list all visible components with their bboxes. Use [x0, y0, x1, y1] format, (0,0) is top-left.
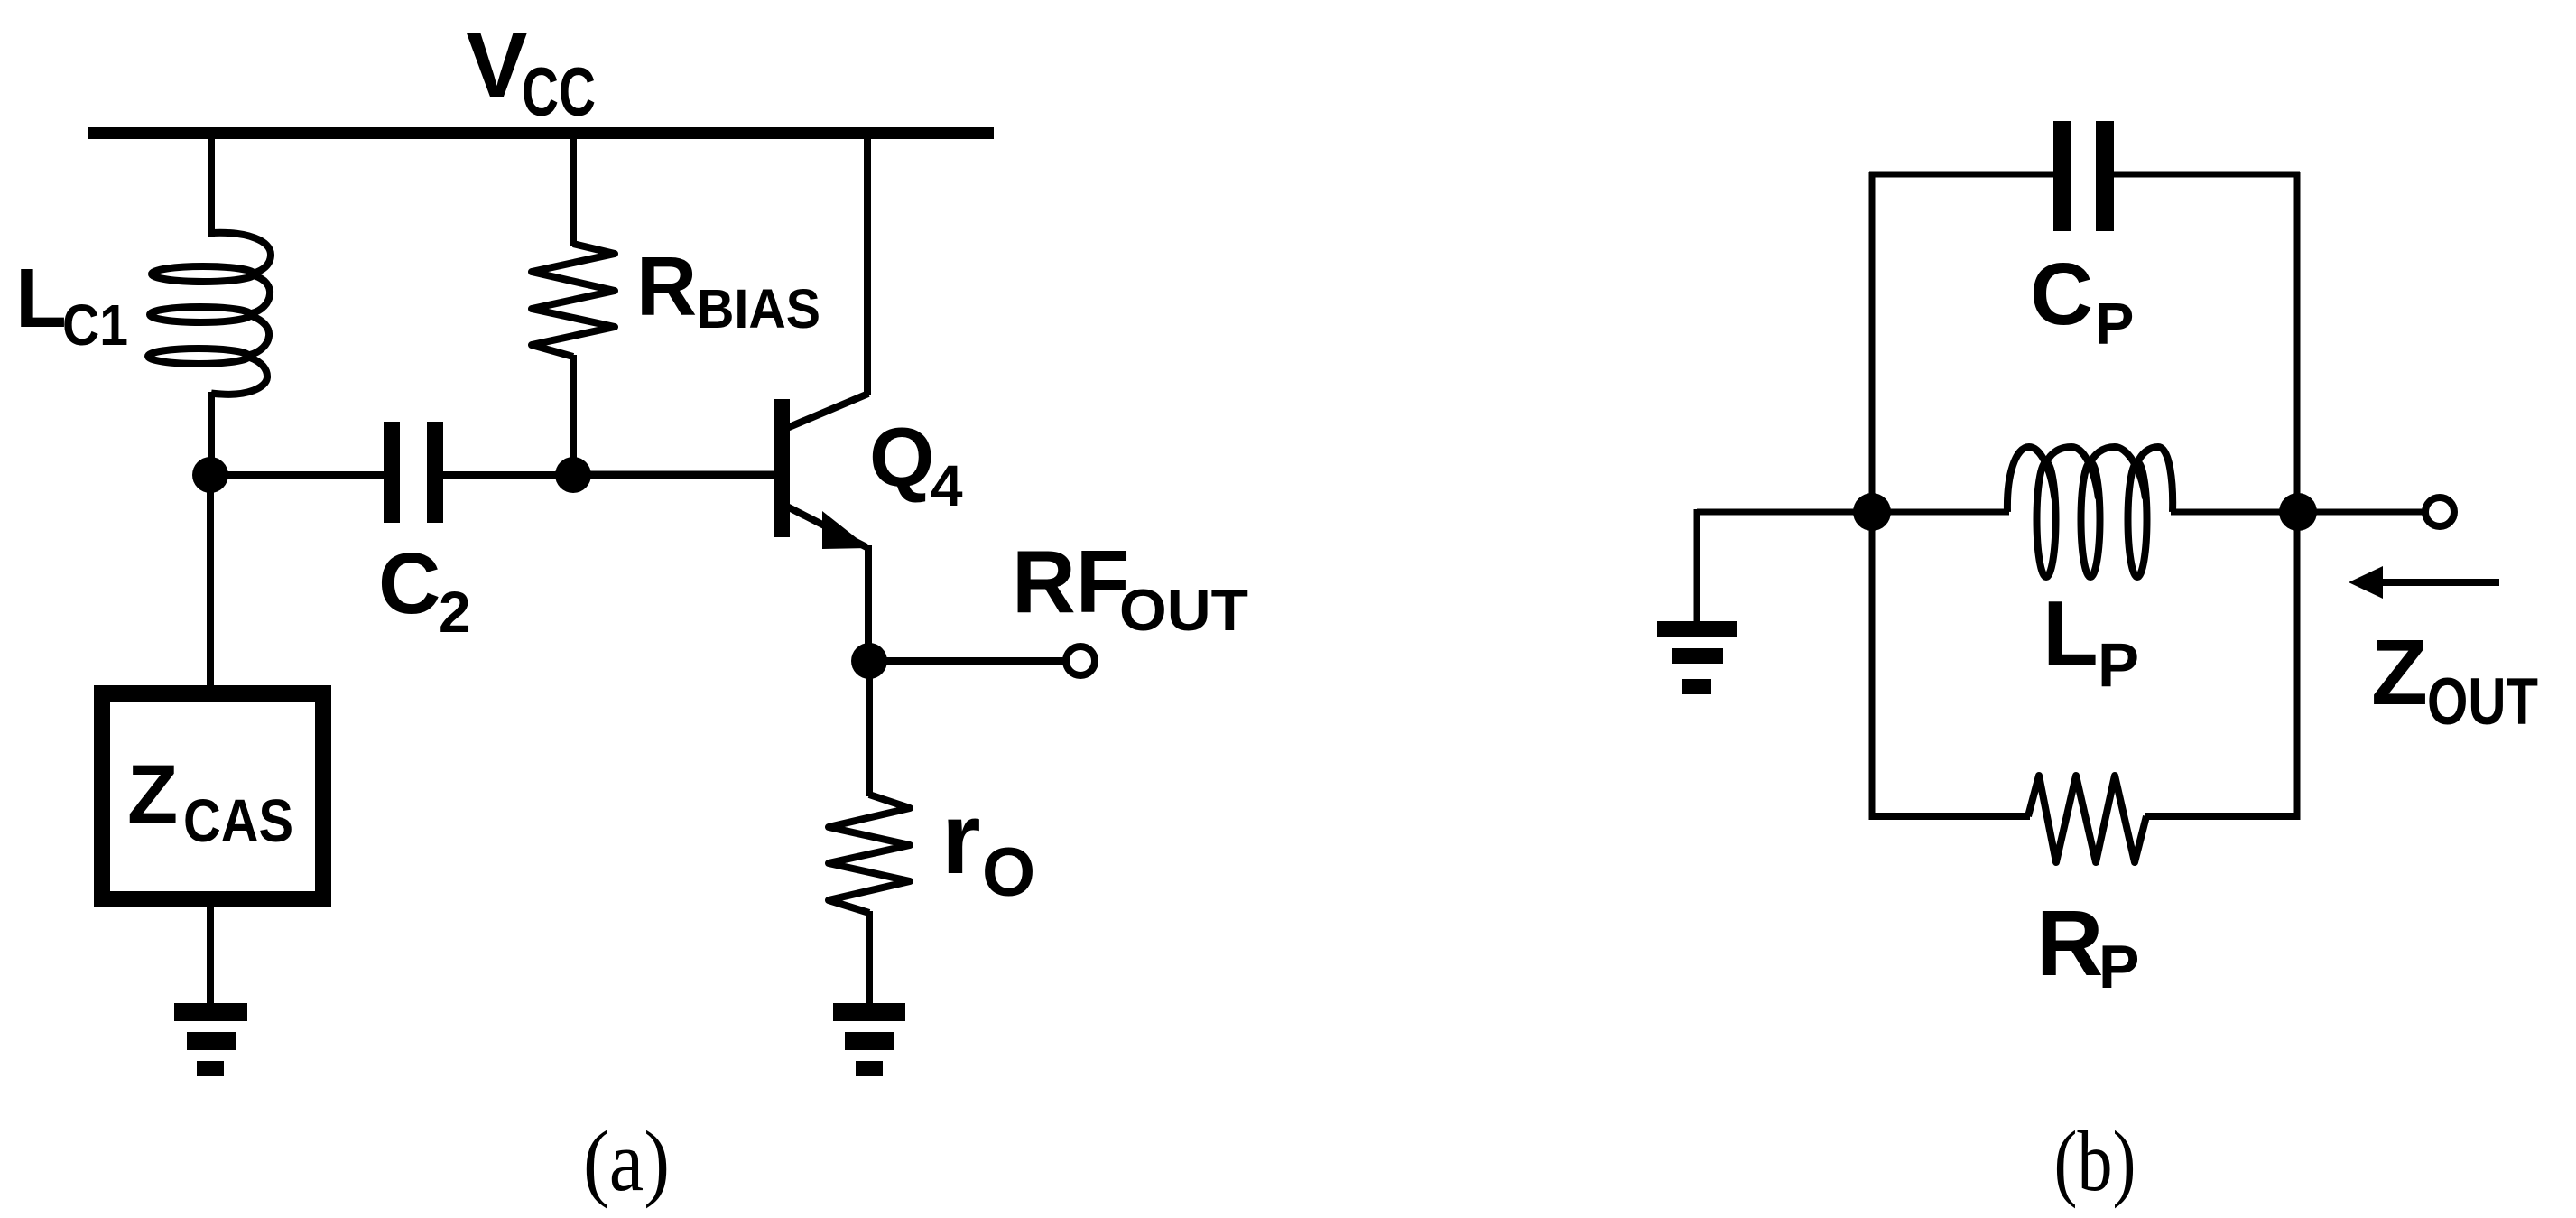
svg-text:BIAS: BIAS: [697, 278, 820, 339]
wire LP to node E: [2171, 509, 2298, 516]
wire ZCAS to ground: [207, 907, 214, 1007]
wire LC1 to node A: [208, 392, 215, 475]
wire right branch: [2294, 172, 2301, 820]
svg-text:P: P: [2099, 933, 2139, 1001]
arrow ZOUT: [2349, 566, 2499, 599]
svg-text:Z: Z: [127, 748, 178, 841]
svg-text:CAS: CAS: [183, 787, 293, 855]
resistor rO: [829, 795, 910, 913]
wire VCC rail to RBIAS: [570, 135, 577, 246]
wire bottom-right of RP loop: [2145, 813, 2300, 820]
label Q4: [869, 410, 963, 518]
wire node C to RFOUT terminal: [869, 657, 1066, 665]
terminal ZOUT: [2425, 497, 2454, 526]
wire bottom-left of RP loop: [1869, 813, 2030, 820]
wire ground stub vertical: [1694, 509, 1700, 625]
inductor LP: [2007, 447, 2173, 577]
transistor Q4: [774, 394, 869, 549]
wire node D to LP: [1872, 509, 2009, 516]
label RP: [2036, 891, 2139, 1001]
label RBIAS: [636, 239, 820, 339]
node E: [2279, 493, 2317, 531]
svg-text:L: L: [2043, 583, 2099, 684]
label C2: [378, 535, 471, 645]
wire C2 to node B: [443, 471, 573, 479]
svg-text:C: C: [378, 535, 440, 632]
label VCC: [466, 13, 596, 131]
svg-text:O: O: [982, 834, 1035, 911]
ground (fig b): [1657, 621, 1737, 694]
wire Q4 collector to VCC rail: [864, 135, 871, 395]
label LC1: [15, 251, 128, 358]
label CP: [2030, 245, 2134, 357]
wire Q4 emitter to node C: [865, 545, 872, 661]
capacitor CP: [2053, 121, 2114, 231]
wire ground stub to node D: [1697, 509, 1872, 516]
svg-text:OUT: OUT: [2427, 665, 2538, 739]
svg-text:2: 2: [439, 580, 471, 645]
svg-text:r: r: [941, 782, 981, 895]
svg-text:C1: C1: [62, 293, 128, 358]
svg-text:CC: CC: [522, 54, 596, 131]
node D: [1853, 493, 1891, 531]
wire top-left of CP loop: [1869, 172, 2053, 178]
svg-text:Q: Q: [869, 410, 934, 504]
svg-text:L: L: [15, 251, 67, 345]
label LP: [2043, 583, 2139, 700]
svg-text:(a): (a): [583, 1113, 670, 1209]
label rO: [941, 782, 1035, 911]
wire node E to ZOUT terminal: [2298, 509, 2425, 516]
impedance block ZCAS: [102, 693, 323, 899]
svg-text:R: R: [636, 239, 697, 333]
label ZCAS: [127, 748, 293, 855]
capacitor C2: [384, 422, 443, 523]
wire left branch: [1869, 172, 1876, 820]
svg-text:V: V: [466, 13, 528, 116]
wire node A to C2: [210, 471, 385, 479]
svg-text:P: P: [2098, 630, 2139, 700]
wire node C to rO: [866, 661, 873, 796]
wire VCC rail to LC1: [208, 135, 215, 237]
label ZOUT: [2371, 620, 2538, 739]
svg-text:Z: Z: [2371, 620, 2428, 724]
wire rO to ground: [866, 911, 873, 1007]
svg-text:RF: RF: [1012, 532, 1130, 631]
wire node A to ZCAS: [207, 475, 214, 688]
svg-text:C: C: [2030, 245, 2093, 343]
label RFOUT: [1012, 532, 1248, 643]
svg-text:P: P: [2095, 291, 2134, 357]
inductor LC1: [148, 233, 271, 395]
wire RBIAS to node B: [570, 355, 577, 475]
node A: [192, 457, 228, 493]
resistor RP: [2028, 776, 2146, 862]
svg-text:R: R: [2036, 891, 2103, 995]
terminal RFOUT: [1066, 646, 1095, 675]
svg-text:(b): (b): [2054, 1113, 2136, 1209]
ground (under ZCAS): [174, 1003, 247, 1076]
svg-text:OUT: OUT: [1119, 577, 1248, 643]
wire node B to Q4 base: [573, 471, 776, 479]
resistor RBIAS: [532, 244, 615, 357]
svg-text:4: 4: [931, 453, 963, 518]
node C: [851, 643, 887, 679]
ground (under rO): [833, 1003, 905, 1076]
wire top-right of CP loop: [2114, 172, 2300, 178]
power rail VCC: [88, 127, 994, 139]
node B: [555, 457, 591, 493]
